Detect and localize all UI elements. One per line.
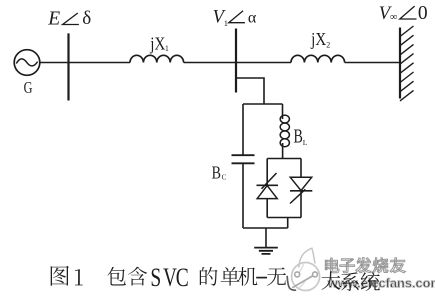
generator G circle bbox=[14, 50, 40, 76]
caption char 的 bbox=[200, 267, 218, 286]
caption char 机 bbox=[238, 267, 257, 286]
wire box to bottom rail connector bbox=[287, 218, 289, 229]
caption char 大 bbox=[321, 271, 340, 290]
wire generator to bus 1 bbox=[40, 62, 69, 64]
caption char 单 bbox=[221, 267, 240, 286]
inductor BL coil bbox=[280, 115, 289, 147]
wire jX2 to infinite bus bbox=[345, 62, 400, 64]
label jX2 bbox=[310, 28, 326, 49]
wire SVC top rail bbox=[243, 103, 283, 105]
label BC bbox=[212, 164, 221, 183]
caption char 含 bbox=[128, 267, 147, 286]
label jX1 bbox=[149, 33, 165, 54]
angle symbol 3 bbox=[400, 6, 417, 19]
watermark text 子 bbox=[340, 259, 355, 273]
svg-text:jX: jX bbox=[310, 28, 326, 49]
svg-text:S: S bbox=[150, 263, 161, 293]
watermark text 电 bbox=[325, 258, 339, 273]
svg-text:G: G bbox=[24, 79, 33, 97]
svg-text:B: B bbox=[294, 125, 303, 147]
svg-text:B: B bbox=[212, 164, 221, 183]
wire right thyristor lower bbox=[300, 191, 302, 218]
svg-text:0: 0 bbox=[418, 3, 428, 24]
watermark logo tail tip bbox=[299, 248, 315, 267]
wire BL branch upper bbox=[282, 104, 284, 119]
bus 1 (generator bus) bbox=[67, 33, 69, 100]
svg-text:L: L bbox=[303, 138, 308, 147]
caption dash bbox=[256, 277, 267, 279]
watermark text 烧 bbox=[373, 258, 388, 273]
capacitor BC plates bbox=[232, 155, 255, 163]
wire capacitor branch upper bbox=[242, 104, 244, 155]
label BL bbox=[294, 125, 303, 147]
wire left thyristor upper bbox=[266, 159, 268, 186]
inductor jX1 bbox=[130, 55, 184, 62]
SVC bottom rail bbox=[243, 227, 288, 229]
ground stem bbox=[265, 228, 267, 247]
angle symbol 2 bbox=[229, 11, 245, 23]
wire SVC tap jog bbox=[236, 78, 264, 104]
thyristor V1 gate diagonal bbox=[262, 173, 277, 189]
bus 3 (infinite bus) bbox=[399, 28, 401, 99]
wire capacitor branch lower bbox=[242, 163, 244, 228]
wire bus1 to jX1 bbox=[69, 62, 131, 64]
wire bus2 to jX2 bbox=[236, 62, 291, 64]
caption char 包 bbox=[107, 267, 126, 286]
wire right thyristor upper bbox=[300, 159, 302, 178]
watermark text 发 bbox=[356, 258, 371, 273]
thyristor V2 gate diagonal bbox=[290, 189, 305, 203]
watermark logo ring bbox=[292, 263, 320, 291]
svg-text:C: C bbox=[222, 174, 227, 182]
thyristor V1 triangle (up) bbox=[257, 186, 277, 199]
thyristor V2 triangle (down) bbox=[290, 177, 311, 190]
thyristor box top rail bbox=[267, 158, 301, 160]
svg-text:1: 1 bbox=[224, 18, 228, 28]
watermark logo left dot bbox=[295, 272, 300, 277]
wire BL to thyristor box bbox=[282, 143, 284, 159]
watermark logo percent line bbox=[293, 276, 313, 288]
svg-text:∞: ∞ bbox=[390, 12, 398, 23]
svg-text:1: 1 bbox=[165, 44, 169, 53]
caption char 统 bbox=[361, 272, 380, 291]
infinite bus hatching bbox=[400, 26, 414, 101]
watermark logo right dot bbox=[313, 272, 318, 277]
caption char 系 bbox=[341, 272, 359, 291]
watermark text 友 bbox=[390, 258, 405, 273]
caption char 图 bbox=[51, 266, 69, 286]
generator sine wave bbox=[16, 59, 37, 66]
svg-text:C: C bbox=[176, 263, 189, 293]
svg-text:jX: jX bbox=[149, 33, 165, 54]
caption digit 1 bbox=[75, 269, 83, 285]
thyristor box bottom rail bbox=[267, 217, 301, 219]
svg-text:α: α bbox=[248, 9, 257, 26]
watermark logo inner slash ghost bbox=[298, 265, 306, 288]
svg-text:2: 2 bbox=[326, 40, 330, 49]
inductor jX2 bbox=[291, 55, 345, 62]
angle symbol 1 bbox=[63, 13, 79, 25]
wire jX1 to bus 2 bbox=[184, 62, 236, 64]
wire left thyristor lower bbox=[266, 199, 268, 218]
caption text SVC bbox=[150, 263, 188, 293]
thyristor V2 cathode bar bbox=[290, 190, 312, 192]
label G bbox=[24, 79, 33, 97]
ground bars bbox=[254, 248, 278, 254]
thyristor V1 cathode bar bbox=[257, 184, 279, 186]
svg-text:δ: δ bbox=[82, 8, 91, 29]
caption char 无 bbox=[267, 267, 286, 285]
svg-text:E: E bbox=[47, 9, 60, 30]
bus 2 (middle bus V1) bbox=[235, 29, 237, 93]
hidden caption char remnant hook bbox=[287, 277, 295, 291]
